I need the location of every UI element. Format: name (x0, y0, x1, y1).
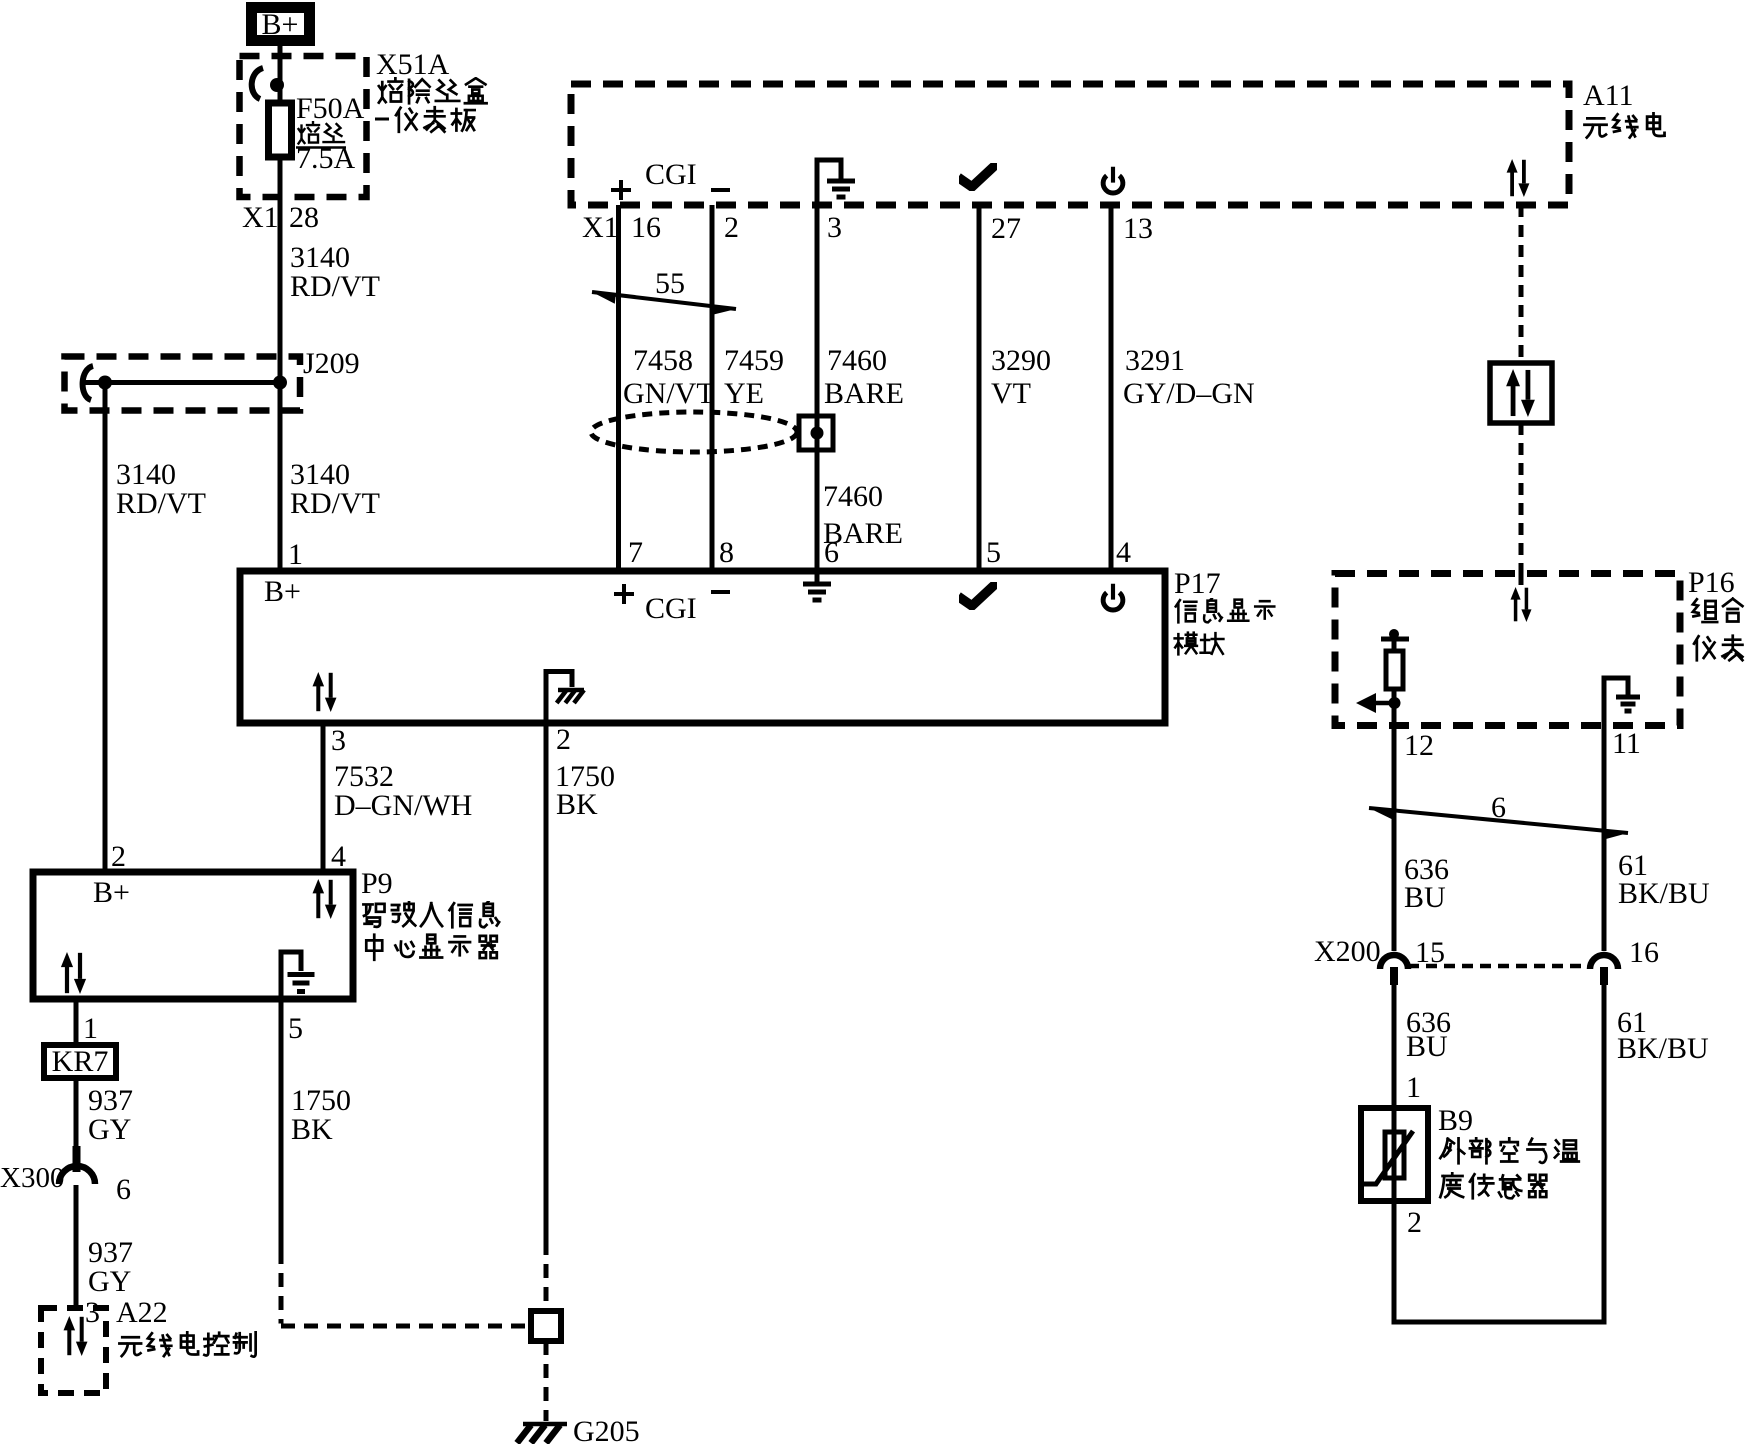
svg-text:3291: 3291 (1125, 344, 1185, 377)
svg-text:2: 2 (111, 840, 126, 873)
ground symbol P9 pin 5 (281, 952, 315, 999)
signal arrow P16 (1356, 693, 1401, 713)
svg-text:7460: 7460 (823, 480, 883, 513)
relay KR7 box (44, 1045, 116, 1078)
label B+ (P9 pin 2) (93, 876, 130, 909)
label 6 (1491, 791, 1506, 824)
pin label 3 (A22) (85, 1296, 100, 1329)
wire 3140 RD/VT J209 to P9 pin 2 (103, 383, 108, 873)
svg-text:2: 2 (556, 723, 571, 756)
label 937 GY (lower) (88, 1236, 133, 1298)
instrument cluster P16 dashed box (1335, 574, 1680, 726)
label CGI plus minus (P17) (614, 584, 730, 625)
svg-text:A22: A22 (116, 1296, 168, 1329)
label 937 GY (upper) (88, 1084, 133, 1146)
node junction dot J209 right (273, 376, 287, 390)
wire 636 BU X200 to B9 (1392, 985, 1397, 1108)
svg-text:GN/VT: GN/VT (623, 377, 715, 410)
svg-text:X300: X300 (0, 1162, 64, 1194)
pin labels A11: X1 16 2 3 27 13 (582, 211, 1153, 245)
label A22 radio control (116, 1296, 256, 1357)
svg-text:A11: A11 (1583, 79, 1634, 112)
driver info center display P9 box (33, 872, 353, 999)
svg-text:GY/D–GN: GY/D–GN (1123, 377, 1255, 410)
svg-text:D–GN/WH: D–GN/WH (334, 789, 472, 822)
svg-text:BK: BK (291, 1113, 333, 1146)
connector terminal hook J209 (83, 366, 93, 400)
chassis ground icon P17 pin 2 (546, 672, 584, 724)
label G205 (573, 1415, 640, 1444)
shield termination box with junction dot (799, 416, 833, 450)
svg-text:X51A: X51A (376, 48, 450, 81)
wire B9 pin2 down (1392, 1201, 1397, 1325)
radio A11 dashed box (571, 84, 1569, 205)
fusebox X51A dashed box (240, 56, 367, 197)
svg-text:P17: P17 (1174, 567, 1221, 600)
wire J209 horizontal (83, 380, 283, 385)
svg-text:13: 13 (1123, 212, 1153, 245)
crossing arrow 6 (twisted pair) (1369, 808, 1628, 840)
crossing arrow 55 (twisted pair) (592, 292, 736, 315)
ground symbol A11 pin 3 (817, 160, 855, 205)
label P17 module name (1174, 567, 1274, 654)
svg-text:GY: GY (88, 1113, 131, 1146)
svg-text:BK: BK (556, 788, 598, 821)
label 61 BK/BU (upper) (1618, 849, 1710, 910)
wire 937 GY X300 to A22 (74, 1185, 79, 1308)
label F50A fuse 7.5A (296, 92, 365, 175)
label 3291 GY/D-GN (1123, 344, 1255, 410)
wire B+ to fuse F50A (3140) (278, 46, 283, 571)
wire 1750 BK P17 pin2 down (544, 723, 549, 1311)
wire 7458 GN/VT (616, 205, 621, 571)
connector X300 pin 6 (59, 1146, 95, 1184)
label 7459 YE (724, 344, 784, 410)
wire 1750 BK P9 pin5 down (281, 999, 531, 1326)
svg-text:BU: BU (1406, 1030, 1448, 1063)
label 1750 BK (P17) (555, 760, 615, 821)
svg-text:7458: 7458 (633, 344, 693, 377)
label P9 display name (361, 867, 499, 960)
label X200 15 16 (1314, 935, 1659, 969)
label B9 sensor name (1438, 1104, 1579, 1198)
radio control A22 dashed box (41, 1308, 106, 1393)
connector terminal hook X51A (252, 68, 284, 99)
power feed B+ terminal (252, 8, 310, 42)
serial-data icon P17 pin 3 (313, 672, 337, 712)
svg-text:3: 3 (85, 1296, 100, 1329)
svg-text:1: 1 (83, 1012, 98, 1045)
label CGI plus minus (A11) (611, 158, 730, 200)
svg-text:6: 6 (824, 536, 839, 569)
label X300 6 (0, 1162, 131, 1206)
svg-text:7: 7 (628, 536, 643, 569)
wire P9 pin1 to KR7 (74, 999, 79, 1045)
svg-text:RD/VT: RD/VT (290, 487, 380, 520)
svg-text:11: 11 (1612, 727, 1641, 760)
wire 636 BU P16 pin12 to X200 (1392, 726, 1397, 952)
wire 3290 VT (977, 205, 982, 571)
svg-text:X200: X200 (1314, 935, 1381, 968)
inline serial-data connector box (1490, 363, 1552, 423)
pin label 2 (B9) (1407, 1206, 1422, 1239)
svg-text:VT: VT (991, 377, 1031, 410)
svg-text:F50A: F50A (296, 92, 365, 125)
label 1750 BK (P9 pin5) (291, 1084, 351, 1146)
label P16 cluster name (1688, 566, 1742, 660)
svg-text:BK/BU: BK/BU (1617, 1032, 1709, 1065)
label 3140 RD/VT (right branch) (290, 458, 380, 520)
sensor feed resistor P16 pin 12 (1381, 629, 1409, 726)
fuse F50A 7.5A (269, 103, 292, 157)
wire 7532 D-GN/WH P17 pin3 to P9 pin4 (321, 723, 326, 872)
label 7458 GN/VT (623, 344, 715, 410)
pin label 1 (P17 B+) (288, 538, 303, 571)
svg-text:4: 4 (1116, 536, 1131, 569)
wire 7459 YE (710, 205, 715, 571)
label 3290 VT (991, 344, 1051, 410)
pin labels P9 bottom: 1 5 (83, 1012, 303, 1045)
label 3140 RD/VT (left branch) (116, 458, 206, 520)
node junction dot J209 left (98, 376, 112, 390)
svg-text:B+: B+ (93, 876, 130, 909)
svg-text:3: 3 (827, 211, 842, 244)
serial-data icon A11 (1507, 159, 1530, 197)
ground symbol P17 pin 6 (803, 571, 831, 600)
wire bottom return (1392, 1320, 1607, 1325)
pin labels P16: 12 11 (1404, 727, 1641, 762)
svg-text:CGI: CGI (645, 158, 697, 191)
svg-text:1: 1 (288, 538, 303, 571)
label B+ (P17 pin 1) (264, 575, 301, 608)
svg-text:12: 12 (1404, 729, 1434, 762)
svg-text:BARE: BARE (824, 377, 904, 410)
svg-text:X1: X1 (582, 211, 619, 244)
serial-data icon P9 pin 1 (61, 952, 86, 994)
svg-text:3: 3 (331, 724, 346, 757)
wire to ground G205 (544, 1341, 549, 1421)
splice junction square (G205 net) (531, 1311, 561, 1341)
connector X200 pins 15 16 (1380, 955, 1618, 985)
svg-text:2: 2 (724, 211, 739, 244)
label wire 3140 RD/VT (top) (290, 241, 380, 303)
svg-text:BK/BU: BK/BU (1618, 877, 1710, 910)
svg-text:2: 2 (1407, 1206, 1422, 1239)
label 7460 BARE (lower) (823, 480, 903, 550)
svg-text:J209: J209 (303, 347, 360, 380)
svg-text:7459: 7459 (724, 344, 784, 377)
svg-text:KR7: KR7 (52, 1045, 109, 1078)
svg-text:4: 4 (331, 840, 346, 873)
outside air temperature sensor B9 box (1361, 1108, 1428, 1201)
label J209 (303, 347, 360, 380)
svg-text:RD/VT: RD/VT (116, 487, 206, 520)
shield ellipse (screen) (591, 412, 797, 452)
svg-text:3290: 3290 (991, 344, 1051, 377)
label 636 BU (upper) (1404, 853, 1449, 914)
label 61 BK/BU (lower) (1617, 1006, 1709, 1065)
power icon A11 pin 13 (1103, 167, 1123, 193)
serial-data icon P16 (1511, 587, 1532, 622)
wire 937 GY KR7 to X300 (74, 1078, 79, 1148)
svg-text:15: 15 (1415, 936, 1445, 969)
label A11 radio (1583, 79, 1665, 138)
label 7460 BARE (824, 344, 904, 410)
svg-text:7.5A: 7.5A (296, 142, 356, 175)
svg-text:55: 55 (655, 267, 685, 300)
svg-text:X1: X1 (242, 201, 279, 234)
svg-text:5: 5 (288, 1012, 303, 1045)
wire 7460 BARE drain (815, 205, 820, 571)
svg-text:B9: B9 (1438, 1104, 1473, 1137)
label 55 (655, 267, 685, 300)
svg-text:GY: GY (88, 1265, 131, 1298)
power icon P17 pin 4 (1103, 584, 1123, 610)
pin labels P9 top: 2 4 (111, 840, 346, 873)
svg-text:16: 16 (1629, 936, 1659, 969)
pin labels P17 top: 7 8 6 5 4 (628, 536, 1131, 569)
ground symbol P16 pin 11 (1604, 678, 1640, 726)
svg-text:G205: G205 (573, 1415, 640, 1444)
check icon P17 pin 5 (962, 585, 994, 606)
thermistor symbol B9 (1363, 1108, 1413, 1201)
pin labels P17 bottom: 3 2 (331, 723, 571, 757)
pin label 1 (B9) (1406, 1071, 1421, 1104)
serial-data icon A22 (64, 1316, 88, 1356)
svg-text:P9: P9 (361, 867, 393, 900)
svg-text:P16: P16 (1688, 566, 1735, 599)
splice J209 dashed box (65, 357, 301, 411)
svg-text:YE: YE (724, 377, 764, 410)
svg-text:5: 5 (986, 536, 1001, 569)
wire 3291 GY/D-GN (1109, 205, 1114, 571)
svg-text:27: 27 (991, 212, 1021, 245)
svg-text:B+: B+ (262, 8, 299, 41)
svg-text:7460: 7460 (827, 344, 887, 377)
label 7532 D-GN/WH (334, 760, 472, 822)
svg-text:B+: B+ (264, 575, 301, 608)
svg-text:28: 28 (289, 201, 319, 234)
label 636 BU (lower) (1406, 1006, 1451, 1063)
svg-text:6: 6 (1491, 791, 1506, 824)
svg-text:BU: BU (1404, 881, 1446, 914)
dashed serial data wire A11 to P16 (1519, 205, 1524, 588)
svg-text:16: 16 (631, 211, 661, 244)
label X51A fusebox - instrument panel (375, 48, 487, 132)
wire 61 BK/BU P16 pin11 to X200 (1602, 726, 1607, 952)
check icon A11 pin 27 (962, 166, 994, 187)
svg-text:CGI: CGI (645, 592, 697, 625)
svg-text:1: 1 (1406, 1071, 1421, 1104)
info display module P17 box (240, 571, 1165, 723)
svg-text:6: 6 (116, 1173, 131, 1206)
pin label X1 28 (242, 201, 319, 234)
serial-data icon P9 pin 4 (313, 879, 337, 919)
svg-text:8: 8 (719, 536, 734, 569)
wire 61 BK/BU X200 down (1602, 985, 1607, 1325)
ground G205 chassis symbol (517, 1424, 567, 1443)
svg-text:RD/VT: RD/VT (290, 270, 380, 303)
